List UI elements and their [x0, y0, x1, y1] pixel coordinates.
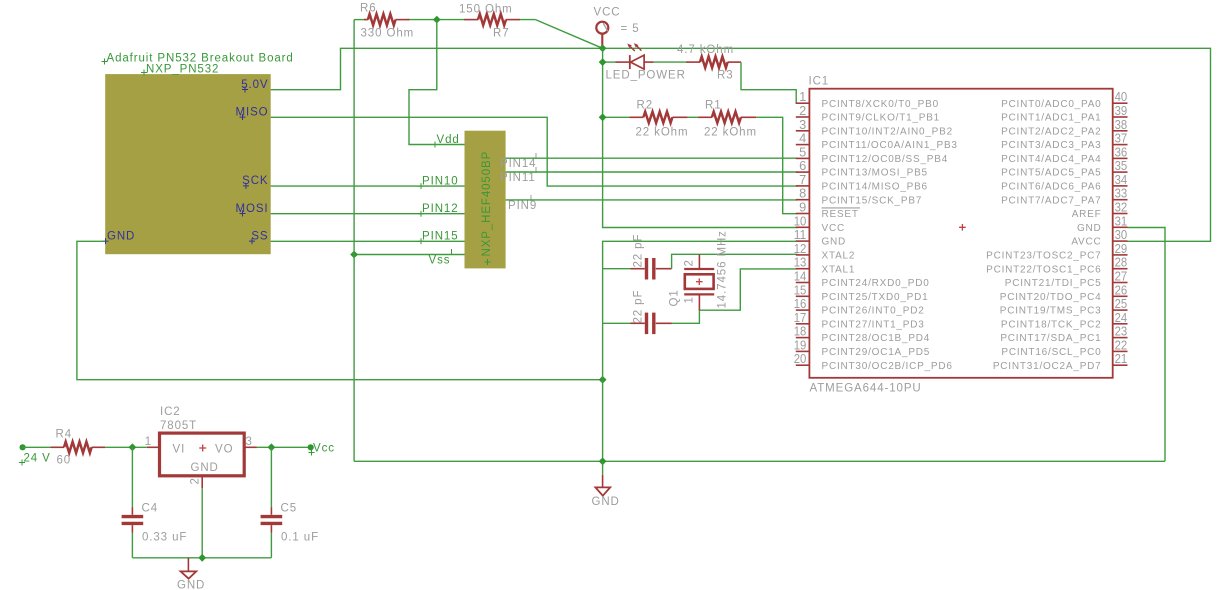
svg-text:2: 2: [683, 259, 695, 266]
supply VCC symbol: [596, 22, 608, 49]
pin 26 stub and number: [1113, 282, 1128, 297]
pin 13 name XTAL1: [822, 264, 856, 275]
pin 7 stub and number: [796, 172, 810, 187]
wire diagonal R7 to VCC node: [536, 20, 603, 49]
svg-text:Vcc: Vcc: [313, 443, 335, 455]
label 150 Ohm: [459, 4, 513, 16]
capacitor C4: [122, 508, 144, 533]
svg-text:GND: GND: [107, 230, 135, 242]
svg-text:1: 1: [683, 296, 695, 303]
svg-text:12: 12: [794, 241, 807, 256]
pin 4 name PCINT11/OC0A/AIN1_PB3: [822, 140, 958, 151]
svg-text:22 kOhm: 22 kOhm: [704, 127, 757, 139]
label C4: [142, 503, 159, 515]
pin label Vdd: [432, 134, 460, 148]
svg-text:PCINT15/SCK_PB7: PCINT15/SCK_PB7: [822, 195, 923, 206]
pin 12 name XTAL2: [822, 251, 856, 262]
pin 28 stub and number: [1113, 255, 1128, 270]
svg-text:2: 2: [799, 103, 806, 118]
label 22 pF (top): [633, 234, 645, 268]
svg-text:GND: GND: [1077, 223, 1102, 234]
wire PIN14 to IC1 pin5: [506, 157, 798, 159]
svg-text:R3: R3: [717, 70, 734, 82]
label Adafruit PN532 Breakout Board: [102, 53, 294, 65]
input 24V node dot: [20, 444, 26, 450]
label C5: [281, 503, 298, 515]
svg-text:PIN9: PIN9: [508, 200, 537, 212]
junction R2 row: [599, 113, 607, 121]
label R4: [56, 429, 73, 441]
wire VCC node to AVCC (pin30): [603, 48, 1211, 241]
junction R6/R7/Vdd: [433, 16, 441, 24]
label 330 Ohm: [361, 28, 415, 40]
wire MOSI net: PN532 to PIN12: [271, 213, 465, 215]
pin 26 name PCINT20/TDO_PC4: [1000, 292, 1102, 303]
svg-text:21: 21: [1115, 351, 1128, 366]
svg-text:PCINT21/TDI_PC5: PCINT21/TDI_PC5: [1005, 278, 1102, 289]
svg-text:R7: R7: [493, 28, 510, 40]
pin label PIN9 (gray): [508, 195, 537, 212]
svg-text:PCINT27/INT1_PD3: PCINT27/INT1_PD3: [822, 319, 925, 330]
pin 2 name PCINT9/CLKO/T1_PB1: [822, 113, 941, 124]
svg-text:PCINT28/OC1B_PD4: PCINT28/OC1B_PD4: [822, 333, 931, 344]
pin label MISO: [236, 106, 269, 120]
label 2 (crystal pin2): [683, 259, 695, 266]
junction bottom bus / trunk: [599, 457, 607, 465]
label = 5: [621, 23, 640, 35]
pin 22 stub and number: [1113, 337, 1128, 352]
wire C4 branch: [131, 447, 133, 558]
label Q1: [669, 289, 681, 306]
svg-text:PCINT29/OC1A_PD5: PCINT29/OC1A_PD5: [822, 347, 931, 358]
svg-text:PCINT13/MOSI_PB5: PCINT13/MOSI_PB5: [822, 168, 928, 179]
svg-text:4: 4: [799, 131, 806, 146]
ground symbol left: [181, 558, 197, 579]
pin 1 stub and number: [796, 89, 810, 104]
svg-text:PCINT19/TMS_PC3: PCINT19/TMS_PC3: [1000, 306, 1102, 317]
pin 11 stub and number: [794, 227, 810, 242]
pin 4 stub and number: [796, 131, 810, 146]
svg-text:VCC: VCC: [822, 223, 845, 234]
svg-text:19: 19: [794, 337, 807, 352]
wire C5 branch: [270, 447, 272, 558]
pin 28 name PCINT22/TOSC1_PC6: [986, 264, 1101, 275]
label 22 kOhm (R1): [704, 127, 757, 139]
wire LED row left: [603, 61, 617, 63]
buffer IC NXP_HEF4050BP body: [465, 131, 506, 269]
svg-text:VO: VO: [215, 444, 233, 456]
svg-text:31: 31: [1115, 213, 1128, 228]
pin 2 stub and number: [796, 103, 810, 118]
pin 20 stub and number: [794, 351, 810, 366]
crystal Q1: [684, 254, 714, 310]
svg-text:150 Ohm: 150 Ohm: [459, 4, 513, 16]
resistor R7: [464, 14, 520, 25]
pin label SS: [249, 230, 269, 244]
label VO: [215, 444, 233, 456]
svg-text:Vss: Vss: [429, 255, 451, 267]
pin 18 stub and number: [794, 324, 810, 339]
pin 14 name PCINT24/RXD0_PD0: [822, 278, 930, 289]
label NXP_PN532: [141, 64, 219, 76]
svg-text:VI: VI: [173, 444, 186, 456]
pin 18 name PCINT28/OC1B_PD4: [822, 333, 931, 344]
pin 35 name PCINT5/ADC5_PA5: [1001, 168, 1101, 179]
svg-text:PCINT16/SCL_PC0: PCINT16/SCL_PC0: [1001, 347, 1101, 358]
svg-text:GND: GND: [822, 237, 847, 248]
pin 22 name PCINT16/SCL_PC0: [1001, 347, 1101, 358]
pin 16 name PCINT26/INT0_PD2: [822, 306, 925, 317]
pin 6 name PCINT13/MOSI_PB5: [822, 168, 928, 179]
pin 3 stub and number: [796, 117, 810, 132]
resistor R6: [364, 14, 409, 25]
label Vcc: [309, 443, 335, 456]
wire VCC to R2: [603, 116, 630, 118]
pin 31 stub and number: [1113, 213, 1128, 228]
svg-text:AREF: AREF: [1072, 209, 1102, 220]
pin 1 name PCINT8/XCK0/T0_PB0: [822, 99, 939, 110]
svg-text:PCINT2/ADC2_PA2: PCINT2/ADC2_PA2: [1001, 126, 1101, 137]
wire right GND riser to IC1 pin31: [1128, 228, 1166, 462]
svg-text:VCC: VCC: [594, 6, 621, 18]
svg-text:38: 38: [1115, 117, 1128, 132]
pin 31 name GND: [1077, 223, 1102, 234]
pin 17 stub and number: [794, 310, 810, 325]
label 24 V: [19, 453, 51, 466]
svg-text:34: 34: [1115, 172, 1128, 187]
pin 15 name PCINT25/TXD0_PD1: [822, 292, 929, 303]
svg-text:PCINT17/SDA_PC1: PCINT17/SDA_PC1: [1000, 333, 1101, 344]
pin 40 name PCINT0/ADC0_PA0: [1001, 99, 1101, 110]
svg-text:C5: C5: [281, 503, 298, 515]
pin 32 stub and number: [1113, 200, 1128, 215]
pin 15 stub and number: [794, 282, 810, 297]
svg-text:PCINT30/OC2B/ICP_PD6: PCINT30/OC2B/ICP_PD6: [822, 361, 953, 372]
pin 27 stub and number: [1113, 269, 1128, 284]
pin 20 name PCINT30/OC2B/ICP_PD6: [822, 361, 953, 372]
svg-text:6: 6: [799, 158, 806, 173]
pin 9 name RESET: [822, 208, 861, 220]
pin label GND (PN532): [103, 230, 136, 244]
pin label PIN10: [418, 175, 459, 189]
svg-text:GND: GND: [191, 462, 219, 474]
svg-text:60: 60: [57, 455, 72, 467]
svg-text:PCINT23/TOSC2_PC7: PCINT23/TOSC2_PC7: [986, 251, 1101, 262]
wire bottom local bus: [132, 557, 271, 559]
svg-text:R1: R1: [705, 100, 722, 112]
svg-text:330 Ohm: 330 Ohm: [361, 28, 415, 40]
label R1: [705, 100, 722, 112]
resistor R4: [51, 442, 106, 453]
pin 3 name PCINT10/INT2/AIN0_PB2: [822, 126, 953, 137]
IC2 7805T body: [160, 433, 245, 476]
wire R3 to IC1 pin1: [741, 62, 798, 103]
pin label PIN12: [418, 203, 459, 217]
svg-text:2: 2: [190, 477, 202, 484]
svg-text:30: 30: [1115, 227, 1128, 242]
svg-text:1: 1: [799, 89, 806, 104]
wire cap bottom row to trunk: [603, 322, 631, 324]
label GND (left): [177, 580, 205, 590]
svg-text:23: 23: [1115, 324, 1128, 339]
svg-text:29: 29: [1115, 241, 1128, 256]
label 0.1 uF: [281, 532, 319, 544]
label 60: [57, 455, 72, 467]
junction Vss/GND: [350, 251, 358, 259]
svg-text:RESET: RESET: [822, 209, 859, 220]
svg-text:R2: R2: [637, 100, 654, 112]
pin 8 name PCINT15/SCK_PB7: [822, 195, 923, 206]
wire GND pin11 row: [603, 241, 798, 461]
svg-text:3: 3: [799, 117, 806, 132]
resistor R1: [698, 112, 756, 123]
label IC2: [160, 406, 181, 418]
wire GND net from PN532 GND pin: [77, 241, 603, 379]
pin 30 stub and number: [1113, 227, 1128, 242]
pin 36 stub and number: [1113, 144, 1128, 159]
svg-text:1: 1: [145, 436, 152, 448]
svg-text:22 pF: 22 pF: [633, 234, 645, 268]
svg-text:PIN14: PIN14: [500, 158, 536, 170]
pin label SCK: [242, 175, 268, 189]
svg-text:40: 40: [1115, 89, 1128, 104]
label 1 (crystal pin1): [683, 296, 695, 303]
junction local bus: [198, 554, 206, 562]
pin 19 name PCINT29/OC1A_PD5: [822, 347, 931, 358]
pin 19 stub and number: [794, 337, 810, 352]
pin 33 stub and number: [1113, 186, 1128, 201]
pin 40 stub and number: [1113, 89, 1128, 104]
svg-text:9: 9: [799, 200, 806, 215]
pin label 5.0V: [241, 79, 268, 93]
svg-text:33: 33: [1115, 186, 1128, 201]
svg-text:14: 14: [794, 269, 807, 284]
svg-text:PIN11: PIN11: [500, 172, 536, 184]
svg-text:39: 39: [1115, 103, 1128, 118]
pin 21 stub and number: [1113, 351, 1128, 366]
label R6: [360, 3, 377, 15]
svg-text:PCINT9/CLKO/T1_PB1: PCINT9/CLKO/T1_PB1: [822, 113, 941, 124]
part origin cross IC1: [959, 224, 966, 231]
wire LED to R3: [654, 61, 687, 63]
wire MISO net: PN532 to IC1 pin7: [271, 117, 798, 186]
svg-text:27: 27: [1115, 269, 1128, 284]
wire bottom GND bus: [354, 460, 1165, 462]
label IC1: [809, 76, 830, 88]
svg-text:PCINT0/ADC0_PA0: PCINT0/ADC0_PA0: [1001, 99, 1101, 110]
label ATMEGA644-10PU: [810, 383, 922, 395]
pin 38 name PCINT2/ADC2_PA2: [1001, 126, 1101, 137]
resistor R2: [630, 112, 688, 123]
pin 21 name PCINT31/OC2A_PD7: [993, 361, 1102, 372]
capacitor 22pF top: [631, 258, 672, 280]
svg-text:IC1: IC1: [809, 76, 830, 88]
pin 13 stub and number: [794, 255, 810, 270]
pin 29 stub and number: [1113, 241, 1128, 256]
svg-text:Q1: Q1: [669, 289, 681, 306]
svg-text:37: 37: [1115, 131, 1128, 146]
label 0.33 uF: [142, 532, 187, 544]
pin label PIN15: [418, 231, 459, 245]
svg-text:GND: GND: [177, 580, 205, 590]
svg-text:PCINT24/RXD0_PD0: PCINT24/RXD0_PD0: [822, 278, 930, 289]
svg-text:11: 11: [794, 227, 807, 242]
svg-text:7805T: 7805T: [160, 420, 197, 432]
Vcc node dot: [308, 444, 314, 450]
pin 23 stub and number: [1113, 324, 1128, 339]
capacitor 22pF bottom: [631, 313, 672, 335]
wire XTAL2 net: [672, 254, 798, 268]
svg-text:PCINT11/OC0A/AIN1_PB3: PCINT11/OC0A/AIN1_PB3: [822, 140, 958, 151]
pin 10 name VCC: [822, 223, 845, 234]
svg-text:26: 26: [1115, 282, 1128, 297]
label VI: [173, 444, 186, 456]
svg-text:PCINT4/ADC4_PA4: PCINT4/ADC4_PA4: [1001, 154, 1101, 165]
label NXP_HEF4050BP: [481, 151, 493, 265]
ground symbol center: [595, 461, 610, 495]
pin label PIN11 (gray): [500, 167, 536, 184]
wire R6 row segments: [354, 19, 535, 21]
pin 1 stub IC2: [145, 436, 160, 448]
pin 25 stub and number: [1113, 296, 1128, 311]
resistor R3: [686, 57, 741, 68]
pin 24 name PCINT18/TCK_PC2: [1001, 319, 1102, 330]
junction VCC node: [599, 44, 607, 52]
capacitor C5: [261, 508, 283, 533]
svg-text:28: 28: [1115, 255, 1128, 270]
label 4.7 kOhm: [677, 44, 734, 56]
wire cap top row to trunk: [603, 268, 631, 270]
svg-text:PCINT26/INT0_PD2: PCINT26/INT0_PD2: [822, 306, 925, 317]
svg-text:PCINT7/ADC7_PA7: PCINT7/ADC7_PA7: [1001, 195, 1101, 206]
pin 3 stub IC2: [244, 436, 257, 448]
label GND (IC2): [191, 462, 219, 474]
svg-text:PCINT22/TOSC1_PC6: PCINT22/TOSC1_PC6: [986, 264, 1101, 275]
pin 27 name PCINT21/TDI_PC5: [1005, 278, 1102, 289]
svg-text:22 pF: 22 pF: [633, 290, 645, 324]
pin 30 name AVCC: [1071, 237, 1101, 248]
pin 7 name PCINT14/MISO_PB6: [822, 182, 928, 193]
svg-text:32: 32: [1115, 200, 1128, 215]
pin 36 name PCINT4/ADC4_PA4: [1001, 154, 1101, 165]
wire 24V to R4: [23, 446, 51, 448]
label GND (center): [592, 496, 620, 508]
pin 11 name GND: [822, 237, 847, 248]
junction C4 top: [129, 443, 137, 451]
wire VCC trunk down to IC1 pin10: [603, 48, 798, 227]
pin 39 name PCINT1/ADC1_PA1: [1001, 113, 1101, 124]
svg-text:3: 3: [246, 436, 253, 448]
svg-text:GND: GND: [592, 496, 620, 508]
pin 32 name AREF: [1072, 209, 1102, 220]
svg-text:PCINT8/XCK0/T0_PB0: PCINT8/XCK0/T0_PB0: [822, 99, 939, 110]
svg-text:24 V: 24 V: [24, 453, 51, 465]
pin 23 name PCINT17/SDA_PC1: [1000, 333, 1101, 344]
svg-text:0.1 uF: 0.1 uF: [281, 532, 319, 544]
label LED_POWER: [606, 70, 686, 82]
svg-text:AVCC: AVCC: [1071, 237, 1101, 248]
label 22 kOhm (R2): [636, 127, 689, 139]
wire XTAL1 net: [672, 269, 798, 323]
svg-text:ATMEGA644-10PU: ATMEGA644-10PU: [810, 383, 922, 395]
pin 38 stub and number: [1113, 117, 1128, 132]
svg-text:IC2: IC2: [160, 406, 181, 418]
pin 17 name PCINT27/INT1_PD3: [822, 319, 925, 330]
wire IC2 GND down: [201, 488, 203, 558]
svg-text:22: 22: [1115, 337, 1128, 352]
svg-text:4.7 kOhm: 4.7 kOhm: [677, 44, 734, 56]
svg-text:35: 35: [1115, 158, 1128, 173]
wire SS net: PN532 to PIN15: [271, 240, 465, 242]
junction LED row: [599, 58, 607, 66]
wire SCK net: PN532 to PIN10: [271, 185, 465, 187]
svg-text:PCINT6/ADC6_PA6: PCINT6/ADC6_PA6: [1001, 182, 1101, 193]
svg-text:PCINT12/OC0B/SS_PB4: PCINT12/OC0B/SS_PB4: [822, 154, 949, 165]
wire R4 to IC2 VI: [105, 446, 147, 448]
module PN532 breakout board body: [105, 74, 271, 254]
svg-text:PCINT31/OC2A_PD7: PCINT31/OC2A_PD7: [993, 361, 1102, 372]
pin 10 stub and number: [794, 213, 810, 228]
pin 5 stub and number: [796, 144, 810, 159]
pin label MOSI: [236, 203, 269, 217]
wire Vdd staircase: [409, 20, 465, 145]
wire R2 to R1: [688, 116, 699, 118]
svg-text:15: 15: [794, 282, 807, 297]
label R3: [717, 70, 734, 82]
svg-text:17: 17: [794, 310, 807, 325]
svg-text:R4: R4: [56, 429, 73, 441]
pin 16 stub and number: [794, 296, 810, 311]
junction C5 top: [268, 443, 276, 451]
wire VO to Vcc: [257, 446, 311, 448]
svg-text:SS: SS: [251, 230, 268, 242]
wire PIN9 to IC1 pin8: [506, 199, 798, 201]
pin 37 stub and number: [1113, 131, 1128, 146]
pin label Vss: [429, 249, 452, 267]
pin 6 stub and number: [796, 158, 810, 173]
svg-text:LED_POWER: LED_POWER: [606, 70, 686, 82]
svg-text:= 5: = 5: [621, 23, 640, 35]
wire Vss net to GND vertical: [354, 254, 464, 256]
svg-text:PCINT5/ADC5_PA5: PCINT5/ADC5_PA5: [1001, 168, 1101, 179]
pin 39 stub and number: [1113, 103, 1128, 118]
pin label PIN14 (gray): [500, 153, 536, 170]
label 22 pF (bottom): [633, 290, 645, 324]
label R2: [637, 100, 654, 112]
svg-text:PCINT25/TXD0_PD1: PCINT25/TXD0_PD1: [822, 292, 929, 303]
pin 33 name PCINT7/ADC7_PA7: [1001, 195, 1101, 206]
junction GND trunk / PN532 GND: [599, 376, 607, 384]
pin 8 stub and number: [796, 186, 810, 201]
wire PIN11 to IC1 pin6: [506, 171, 798, 173]
svg-text:13: 13: [794, 255, 807, 270]
pin 34 stub and number: [1113, 172, 1128, 187]
label VCC: [594, 6, 621, 18]
svg-text:20: 20: [794, 351, 807, 366]
svg-text:14.7456 MHz: 14.7456 MHz: [717, 230, 729, 308]
svg-text:PCINT3/ADC3_PA3: PCINT3/ADC3_PA3: [1001, 140, 1101, 151]
svg-text:PCINT1/ADC1_PA1: PCINT1/ADC1_PA1: [1001, 113, 1101, 124]
pin 37 name PCINT3/ADC3_PA3: [1001, 140, 1101, 151]
svg-text:R6: R6: [360, 3, 377, 15]
wire 5.0V net: PN532 to VCC node: [271, 48, 603, 89]
pin 29 name PCINT23/TOSC2_PC7: [986, 251, 1101, 262]
svg-text:NXP_PN532: NXP_PN532: [146, 64, 219, 76]
svg-text:XTAL1: XTAL1: [822, 264, 856, 275]
pin 35 stub and number: [1113, 158, 1128, 173]
label 14.7456 MHz: [717, 230, 729, 308]
IC U1 ATMEGA644-10PU body: [809, 89, 1112, 378]
